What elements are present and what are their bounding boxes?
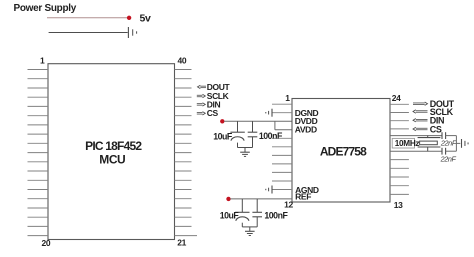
crystal Y1 10MHz — [418, 136, 441, 152]
svg-text:1: 1 — [40, 56, 45, 66]
ground lower cap group — [245, 231, 255, 235]
U2 right pins — [390, 104, 409, 194]
node ref rail dot B — [226, 197, 230, 201]
wire crystal bottom rail left — [390, 150, 442, 152]
arrow DIN into U2 — [413, 119, 428, 122]
svg-text:24: 24 — [392, 93, 401, 103]
svg-text:MCU: MCU — [99, 153, 125, 167]
wire supply ground — [49, 32, 128, 34]
IC U2 ADE7758 body — [292, 99, 390, 203]
svg-text:40: 40 — [178, 56, 187, 66]
arrow DOUT out of U2 — [413, 102, 428, 105]
svg-text:21: 21 — [177, 237, 186, 247]
svg-text:10uF: 10uF — [220, 210, 240, 220]
capacitor C3 10uF (electrolytic) — [235, 199, 249, 227]
wire ref rail to REF pin — [230, 198, 292, 200]
svg-text:CS: CS — [207, 108, 219, 118]
ground crystal caps (rotated) — [462, 139, 469, 148]
node 5v junction dot — [127, 16, 131, 20]
wire crystal top rail right — [446, 135, 457, 137]
arrow DIN out of U1 — [197, 103, 206, 106]
ground upper cap group — [240, 152, 250, 156]
wire branch to AVDD pin — [275, 129, 292, 131]
svg-text:100nF: 100nF — [259, 131, 283, 141]
label Y1 10MHz box — [392, 138, 414, 148]
wire 5v supply — [47, 17, 129, 19]
svg-text:13: 13 — [394, 200, 403, 210]
capacitor C1 10uF (electrolytic) — [230, 121, 244, 147]
arrow CS into U2 — [413, 127, 428, 130]
svg-text:5v: 5v — [140, 13, 151, 25]
svg-text:22nF: 22nF — [440, 154, 457, 163]
node 5v rail dot A — [220, 119, 224, 123]
wire crystal bottom rail right — [446, 150, 457, 152]
wire crystal top rail left — [390, 135, 442, 137]
svg-text:CS: CS — [430, 124, 442, 134]
U1 right pins 21-40 — [175, 70, 198, 236]
svg-text:REF: REF — [295, 192, 311, 202]
svg-text:1: 1 — [285, 93, 290, 103]
ground power-supply (rotated) — [128, 27, 136, 38]
svg-text:20: 20 — [42, 238, 51, 248]
wire cap group joint upper — [238, 147, 253, 149]
ground DGND pin (rotated) — [266, 109, 272, 117]
wire cap group joint lower — [242, 226, 257, 228]
IC U1 PIC18F452 body — [48, 64, 175, 240]
svg-text:10MHz: 10MHz — [395, 139, 420, 148]
svg-text:12: 12 — [284, 200, 293, 210]
svg-text:PIC 18F452: PIC 18F452 — [85, 139, 142, 153]
svg-text:Power Supply: Power Supply — [14, 3, 77, 14]
svg-text:ADE7758: ADE7758 — [320, 145, 367, 159]
svg-text:AVDD: AVDD — [295, 124, 317, 134]
ground AGND pin (rotated) — [266, 186, 272, 194]
wire branch down to AVDD — [274, 121, 276, 130]
wire caps joiner — [455, 136, 457, 152]
arrow CS out of U1 — [197, 112, 206, 115]
capacitor C5 22nF plates (top) — [442, 132, 446, 139]
arrow SCLK into U2 — [413, 110, 428, 113]
svg-text:22nF: 22nF — [440, 138, 457, 147]
U2 left pins — [272, 104, 292, 189]
wire 5v rail to DVDD — [224, 120, 292, 122]
svg-text:10uF: 10uF — [213, 132, 233, 142]
capacitor C2 100nF — [248, 121, 258, 147]
arrow SCLK out of U1 — [197, 94, 206, 97]
svg-text:100nF: 100nF — [264, 210, 288, 220]
U1 left pins 1-20 — [28, 70, 49, 236]
arrow DOUT into U1 — [198, 85, 207, 88]
capacitor C6 22nF plates (bottom) — [442, 148, 446, 155]
capacitor C4 100nF — [252, 199, 262, 227]
